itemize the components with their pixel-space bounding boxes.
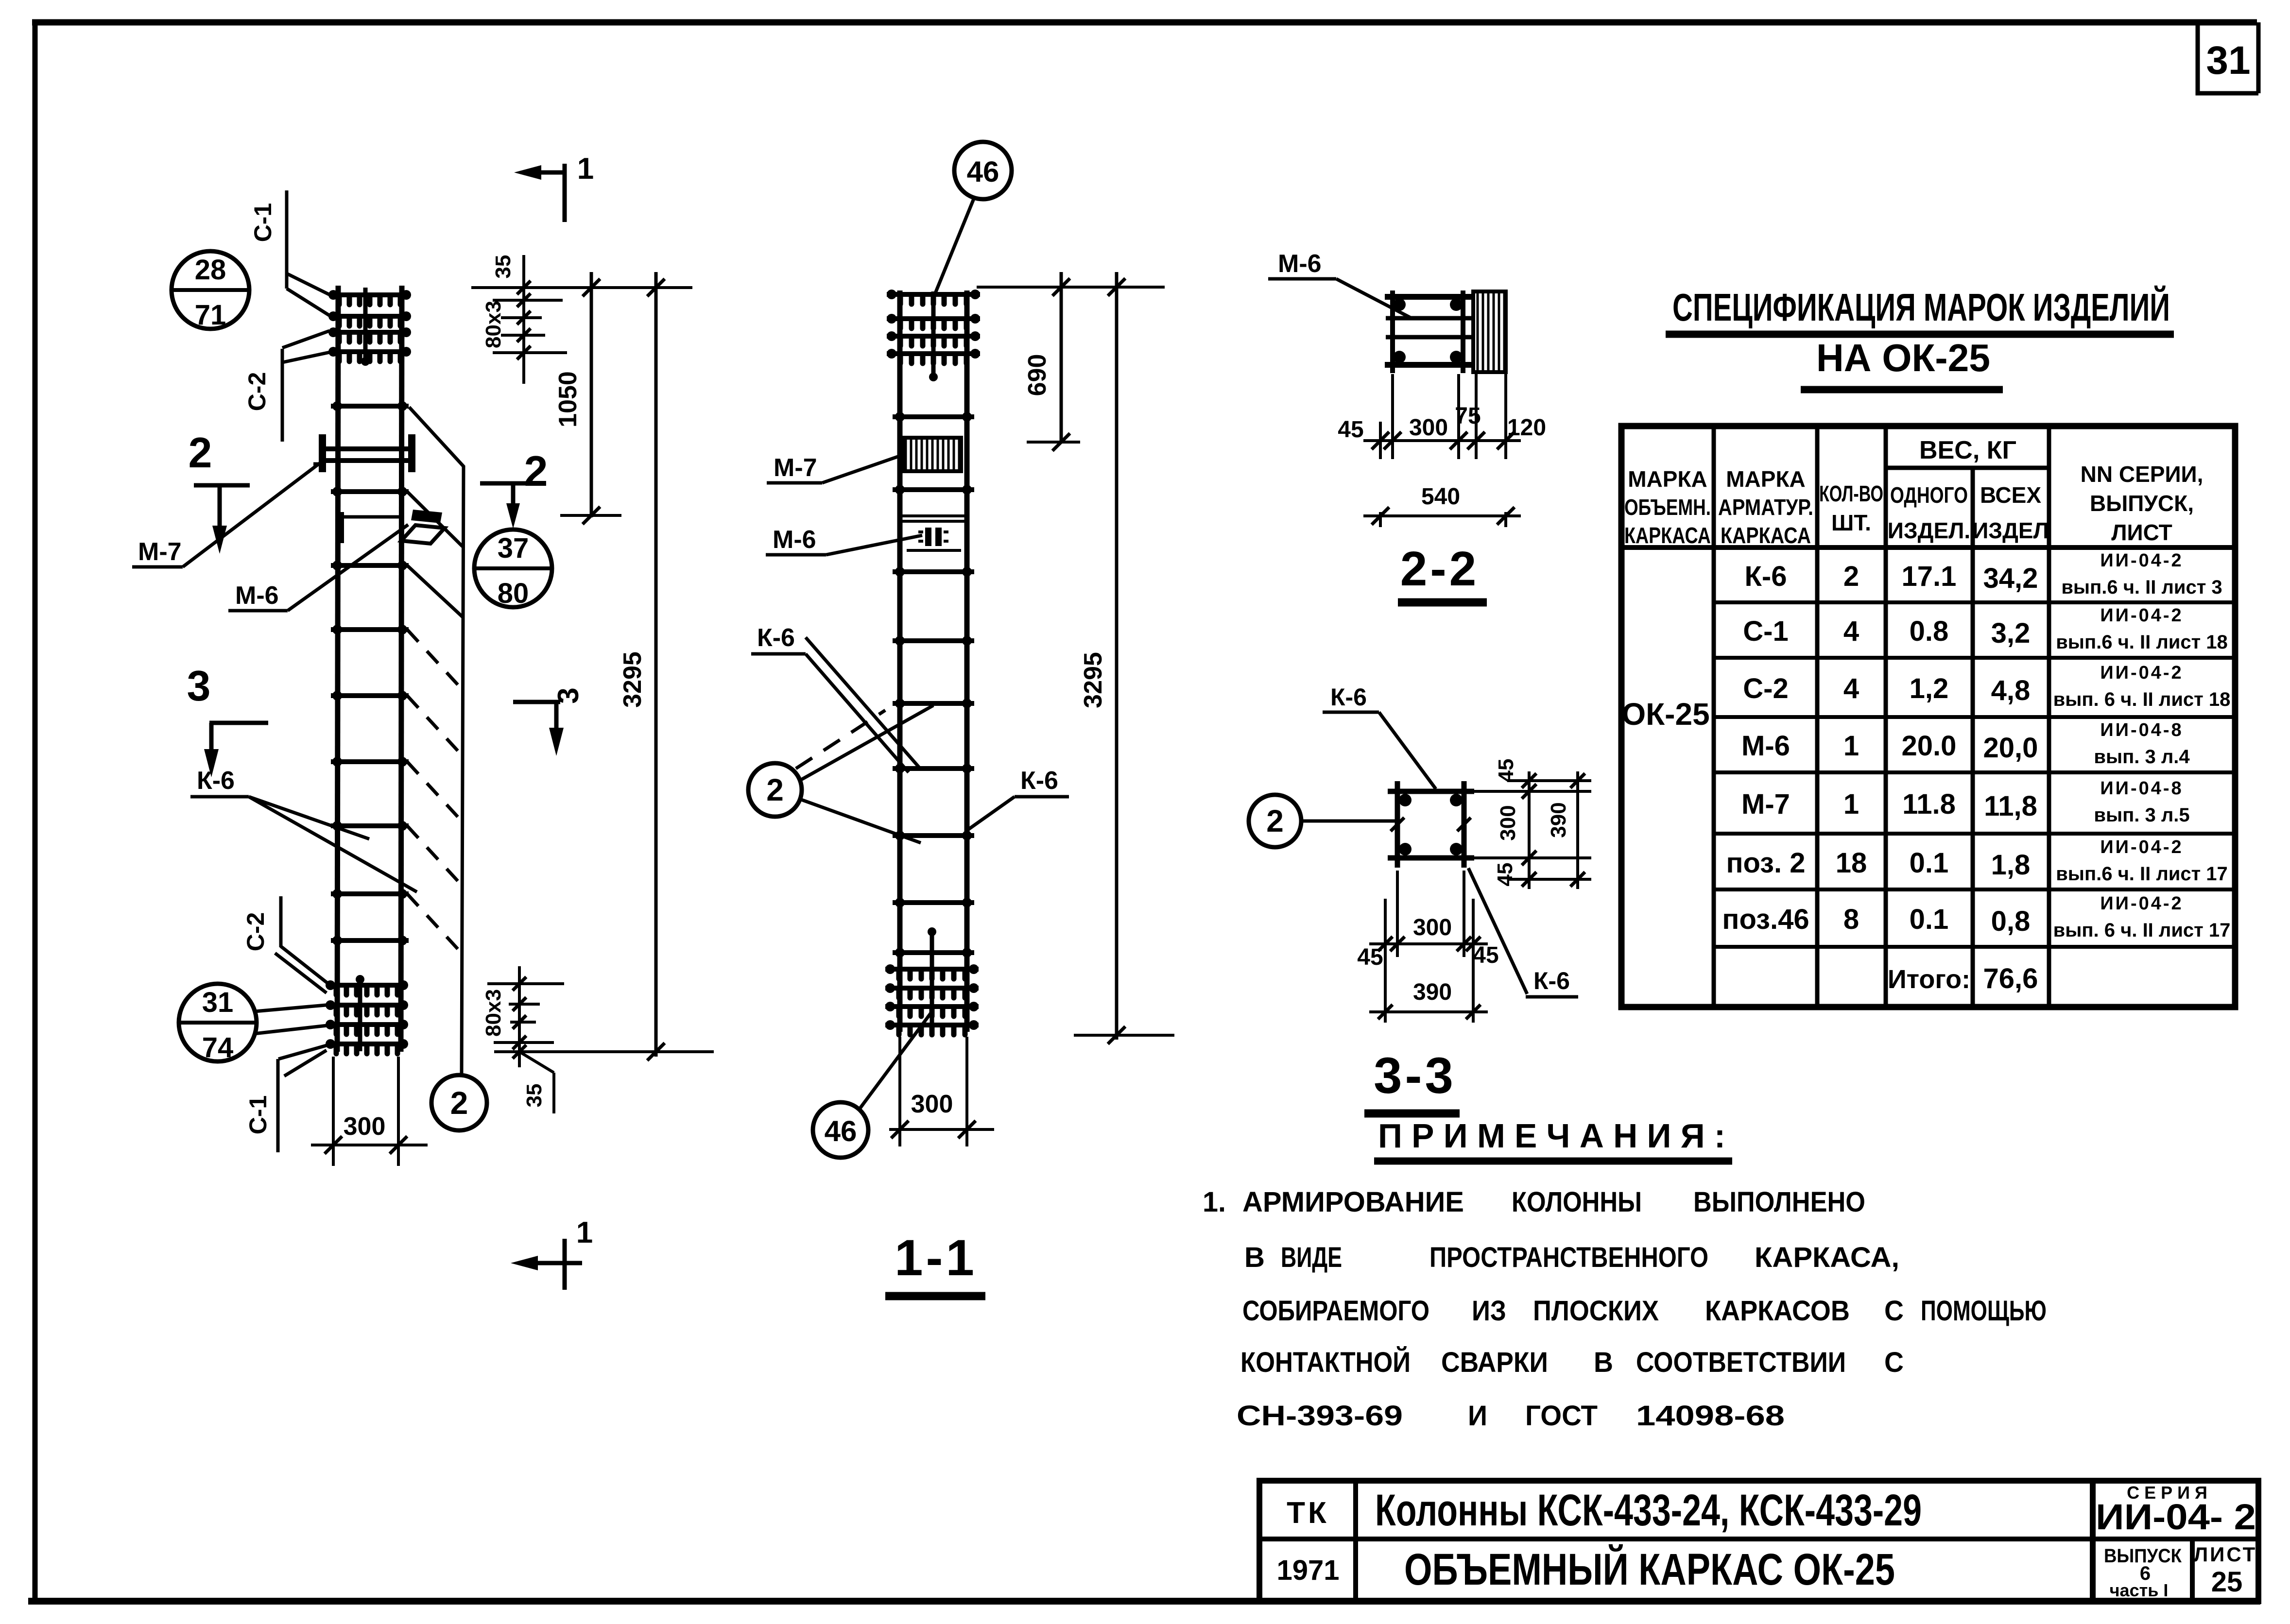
section 1-1 rungs <box>893 412 974 422</box>
svg-text:0.1: 0.1 <box>1910 904 1949 935</box>
svg-text:ВИДЕ: ВИДЕ <box>1281 1242 1342 1273</box>
svg-text:В: В <box>1244 1242 1265 1273</box>
leader from section 3-3 to label K-6 bottom <box>1468 868 1527 994</box>
leader polyline to callout circle 2 bottom <box>409 407 464 1075</box>
callout circle 31/74 <box>179 984 257 1061</box>
svg-text:СПЕЦИФИКАЦИЯ МАРОК ИЗДЕЛИЙ: СПЕЦИФИКАЦИЯ МАРОК ИЗДЕЛИЙ <box>1672 285 2170 329</box>
svg-text:46: 46 <box>825 1115 857 1147</box>
svg-text:0.8: 0.8 <box>1910 615 1949 647</box>
svg-text:25: 25 <box>2211 1566 2243 1598</box>
svg-text:МАРКА: МАРКА <box>1628 466 1707 492</box>
section 1-1 rail left <box>897 291 903 1032</box>
svg-text:NN СЕРИИ,: NN СЕРИИ, <box>2081 462 2204 487</box>
svg-text:С-2: С-2 <box>1743 673 1788 704</box>
svg-text:НА ОК-25: НА ОК-25 <box>1816 336 1990 379</box>
svg-text:КАРКАСА: КАРКАСА <box>1624 523 1711 548</box>
svg-text:2: 2 <box>450 1085 468 1121</box>
svg-text:Колонны КСК-433-24, КСК-433-: Колонны КСК-433-24, КСК-433-29 <box>1375 1486 1922 1535</box>
svg-text:М-7: М-7 <box>138 538 182 566</box>
svg-text:31: 31 <box>2206 38 2250 83</box>
svg-text:ТК: ТК <box>1287 1496 1329 1530</box>
embedded part M-6 in section 1-1 <box>900 514 967 517</box>
svg-text:1050: 1050 <box>554 371 582 427</box>
svg-text:ГОСТ: ГОСТ <box>1525 1400 1598 1432</box>
section 3-3 square of bars <box>1395 781 1400 868</box>
svg-text:СН-393-69: СН-393-69 <box>1237 1400 1403 1432</box>
svg-text:МАРКА: МАРКА <box>1726 466 1806 492</box>
embedded part M-6 flag in left column <box>338 515 401 519</box>
section 2-2 middle bars <box>1386 316 1502 321</box>
dimension 1050 left column <box>590 272 593 517</box>
svg-text:20,0: 20,0 <box>1983 732 2038 764</box>
svg-text:КОЛОННЫ: КОЛОННЫ <box>1512 1186 1642 1218</box>
leader 46 bottom <box>859 1013 931 1110</box>
section mark 2 right <box>480 481 530 486</box>
svg-text:С-1: С-1 <box>1743 615 1788 647</box>
svg-text:14098-68: 14098-68 <box>1636 1400 1785 1432</box>
svg-text:вып.6 ч. II лист 3: вып.6 ч. II лист 3 <box>2061 577 2222 598</box>
svg-text:ПОМОЩЬЮ: ПОМОЩЬЮ <box>1921 1295 2047 1327</box>
svg-text:3295: 3295 <box>1079 652 1107 708</box>
svg-text:300: 300 <box>911 1090 953 1118</box>
svg-text:ИЗ: ИЗ <box>1472 1295 1506 1327</box>
svg-text:4,8: 4,8 <box>1991 675 2031 706</box>
section 1-1 bottom mesh rows <box>885 964 979 979</box>
svg-text:31: 31 <box>202 987 234 1018</box>
leader M-7 section 1-1 <box>822 454 905 483</box>
svg-text:ВЫПОЛНЕНО: ВЫПОЛНЕНО <box>1693 1186 1865 1218</box>
svg-text:поз. 2: поз. 2 <box>1726 847 1805 879</box>
section 3-3 corner bars dots <box>1399 794 1412 806</box>
svg-text:часть I: часть I <box>2110 1580 2169 1600</box>
sheet border frame <box>33 21 38 1603</box>
svg-text:М-7: М-7 <box>774 454 817 482</box>
svg-text:С-1: С-1 <box>244 1095 272 1135</box>
section 3-3 right dimension chain 45 300 45 390 <box>1468 790 1591 793</box>
svg-text:390: 390 <box>1413 979 1452 1005</box>
callout circle 2 middle <box>748 763 802 817</box>
leader band C-2 to mesh <box>282 331 329 348</box>
svg-text:КАРКАСА: КАРКАСА <box>1721 523 1811 548</box>
svg-text:2: 2 <box>766 772 784 807</box>
svg-text:К-6: К-6 <box>1020 767 1058 795</box>
svg-text:вып. 3 л.4: вып. 3 л.4 <box>2094 746 2190 768</box>
svg-text:4: 4 <box>1843 673 1859 704</box>
svg-text:3: 3 <box>552 687 585 703</box>
leaders circle 31/74 to mesh <box>255 1005 331 1011</box>
svg-text:74: 74 <box>202 1032 234 1063</box>
left column rail right <box>401 286 402 1052</box>
svg-text:300: 300 <box>344 1112 386 1141</box>
svg-text:76,6: 76,6 <box>1983 963 2038 994</box>
svg-text:К-6: К-6 <box>1533 967 1570 994</box>
svg-text:М-6: М-6 <box>1278 250 1322 278</box>
leader band C-1 bottom <box>278 1045 327 1059</box>
svg-text:ИИ-04- 2: ИИ-04- 2 <box>2096 1497 2256 1537</box>
svg-text:75: 75 <box>1455 403 1481 429</box>
svg-text:КОНТАКТНОЙ: КОНТАКТНОЙ <box>1240 1347 1411 1378</box>
left column top mesh center bar <box>363 288 368 363</box>
callout circle 2 bottom left column <box>431 1075 487 1130</box>
svg-text:2: 2 <box>1843 561 1859 592</box>
svg-text:1-1: 1-1 <box>895 1230 977 1286</box>
embedded part M-7 hatched in section 1-1 <box>903 438 961 471</box>
svg-text:поз.46: поз.46 <box>1722 904 1809 935</box>
svg-text:45: 45 <box>1357 944 1383 970</box>
leader K-6 to section 3-3 <box>1379 712 1436 789</box>
callout circle 46 top <box>954 142 1012 199</box>
sheet number box 31 <box>2198 23 2258 93</box>
left column rail left <box>337 286 338 1052</box>
svg-text:390: 390 <box>1547 802 1570 838</box>
svg-text:45: 45 <box>1493 863 1517 887</box>
leader band K-6 middle <box>806 637 919 768</box>
svg-text:11,8: 11,8 <box>1984 790 2037 822</box>
svg-text:1.: 1. <box>1203 1186 1226 1218</box>
svg-text:20.0: 20.0 <box>1902 730 1957 762</box>
leader band C-1 to mesh <box>287 274 330 295</box>
left column top mesh rows <box>328 290 411 305</box>
svg-text:45: 45 <box>1473 942 1498 968</box>
svg-text:К-6: К-6 <box>1330 684 1367 711</box>
svg-text:КАРКАСА,: КАРКАСА, <box>1755 1242 1899 1273</box>
svg-text:М-6: М-6 <box>1741 730 1790 762</box>
svg-text:18: 18 <box>1836 847 1867 879</box>
dimension 540 of section 2-2 <box>1379 512 1382 527</box>
svg-text:80x3: 80x3 <box>482 989 505 1037</box>
section mark 3 right <box>513 700 560 704</box>
svg-text:С: С <box>1884 1347 1904 1378</box>
svg-text:К-6: К-6 <box>1745 561 1787 592</box>
svg-text:ЛИСТ: ЛИСТ <box>2111 520 2172 545</box>
svg-text:Итого:: Итого: <box>1888 965 1970 994</box>
svg-text:300: 300 <box>1413 915 1452 940</box>
svg-text:1,2: 1,2 <box>1910 673 1949 704</box>
extension line top section 1-1 <box>977 286 1165 289</box>
svg-text:ИЗДЕЛ.: ИЗДЕЛ. <box>1888 518 1970 543</box>
solid diagonal leaders from left column rungs <box>407 492 463 547</box>
svg-text:ИИ-04-2: ИИ-04-2 <box>2100 605 2183 626</box>
svg-text:2-2: 2-2 <box>1400 542 1480 596</box>
callout circle 37/80 <box>474 530 552 607</box>
svg-text:ЛИСТ: ЛИСТ <box>2194 1543 2257 1566</box>
svg-text:П Р И М Е Ч А Н И Я :: П Р И М Е Ч А Н И Я : <box>1378 1117 1725 1155</box>
svg-text:вып. 6 ч. II лист 17: вып. 6 ч. II лист 17 <box>2053 920 2231 941</box>
dimension 3295 left column <box>654 272 658 1057</box>
svg-text:45: 45 <box>1338 417 1363 443</box>
svg-text:ВСЕХ: ВСЕХ <box>1980 482 2041 508</box>
svg-text:С-2: С-2 <box>242 912 269 952</box>
svg-text:80x3: 80x3 <box>482 301 505 348</box>
svg-text:35: 35 <box>491 255 515 279</box>
svg-text:В: В <box>1594 1347 1613 1378</box>
leader band C-2 bottom <box>281 946 331 986</box>
svg-text:28: 28 <box>195 254 226 286</box>
title block frame <box>1259 1481 2258 1601</box>
dashed diagonal leaders from left column rungs <box>407 630 462 689</box>
svg-text:45: 45 <box>1494 759 1518 783</box>
svg-text:71: 71 <box>195 299 226 331</box>
leader M-6 <box>288 525 408 611</box>
svg-text:2: 2 <box>524 447 548 495</box>
embedded part M-7 plates and bars in left column <box>319 434 326 472</box>
svg-text:2: 2 <box>189 428 212 477</box>
section 1-1 bottom mesh center bar <box>930 929 934 1032</box>
leader M-6 to section 2-2 <box>1336 279 1412 318</box>
svg-text:ИИ-04-2: ИИ-04-2 <box>2100 550 2183 571</box>
svg-text:ПРОСТРАНСТВЕННОГО: ПРОСТРАНСТВЕННОГО <box>1429 1242 1708 1273</box>
svg-text:1: 1 <box>576 1216 593 1249</box>
svg-text:вып. 3 л.5: вып. 3 л.5 <box>2094 804 2189 826</box>
leader M-6 section 1-1 <box>826 535 922 555</box>
section 2-2 frame bars <box>1390 291 1395 373</box>
dimension 300 left column bottom <box>332 1057 335 1166</box>
left column rungs <box>331 401 409 411</box>
dimension 300 section 1-1 <box>898 1037 901 1146</box>
callout circle 28/71 <box>172 251 249 329</box>
section 3-3 bottom dimension chain 45 300 45 390 <box>1384 899 1387 1023</box>
section 1-1 top mesh rows <box>887 290 980 304</box>
svg-text:ВЫПУСК,: ВЫПУСК, <box>2090 491 2194 516</box>
svg-text:37: 37 <box>498 532 529 564</box>
embedded part M-6 hatched block <box>1473 291 1506 372</box>
svg-text:К-6: К-6 <box>757 624 795 652</box>
svg-text:КОЛ-ВО: КОЛ-ВО <box>1819 481 1883 506</box>
callout circle 46 bottom <box>813 1102 868 1158</box>
leader M-7 <box>183 462 321 567</box>
svg-text:1: 1 <box>1843 788 1859 820</box>
leaders circle 2 middle <box>800 705 933 780</box>
svg-text:С: С <box>1884 1295 1904 1327</box>
svg-text:ОБЪЕМН.: ОБЪЕМН. <box>1624 495 1711 520</box>
svg-text:СВАРКИ: СВАРКИ <box>1441 1347 1548 1378</box>
svg-text:КАРКАСОВ: КАРКАСОВ <box>1705 1295 1850 1327</box>
leader K-6 middle right <box>968 797 1015 830</box>
svg-text:К-6: К-6 <box>197 767 235 795</box>
svg-text:3-3: 3-3 <box>1374 1047 1456 1104</box>
svg-text:ОДНОГО: ОДНОГО <box>1890 482 1968 508</box>
svg-text:ИИ-04-2: ИИ-04-2 <box>2100 663 2183 683</box>
svg-text:АРМИРОВАНИЕ: АРМИРОВАНИЕ <box>1242 1186 1464 1218</box>
callout circle 2 of section 3-3 <box>1249 795 1301 847</box>
section 2-2 corner welds <box>1393 298 1406 311</box>
svg-text:ПЛОСКИХ: ПЛОСКИХ <box>1533 1295 1659 1327</box>
svg-text:300: 300 <box>1409 415 1448 441</box>
leaders K-6 to rungs <box>249 797 369 839</box>
svg-text:М-6: М-6 <box>773 526 816 554</box>
svg-text:вып.6 ч. II лист 18: вып.6 ч. II лист 18 <box>2056 632 2228 653</box>
svg-text:И: И <box>1468 1400 1487 1432</box>
svg-text:34,2: 34,2 <box>1983 563 2038 594</box>
spec table grid <box>1621 426 2235 1007</box>
dimension chain 45 300 75 120 of section 2-2 <box>1391 374 1394 459</box>
svg-text:2: 2 <box>1266 803 1284 838</box>
svg-text:3,2: 3,2 <box>1991 617 2031 649</box>
svg-text:ИИ-04-8: ИИ-04-8 <box>2100 778 2183 799</box>
svg-text:80: 80 <box>498 578 529 609</box>
left column bottom mesh center bar <box>358 977 362 1051</box>
dimension 3295 section 1-1 <box>1115 272 1119 1040</box>
svg-text:120: 120 <box>1507 415 1546 441</box>
svg-text:ИИ-04-2: ИИ-04-2 <box>2100 837 2183 857</box>
svg-text:ИИ-04-8: ИИ-04-8 <box>2100 720 2183 740</box>
svg-text:8: 8 <box>1843 904 1859 935</box>
svg-text:вып.6 ч. II лист 17: вып.6 ч. II лист 17 <box>2056 863 2228 885</box>
svg-text:СООТВЕТСТВИИ: СООТВЕТСТВИИ <box>1636 1347 1846 1378</box>
svg-text:1: 1 <box>577 152 594 186</box>
svg-text:М-7: М-7 <box>1741 788 1790 820</box>
svg-text:1971: 1971 <box>1276 1555 1339 1586</box>
section 1-1 rail right <box>964 291 970 1032</box>
svg-text:17.1: 17.1 <box>1902 561 1957 592</box>
svg-text:11.8: 11.8 <box>1902 788 1956 820</box>
svg-text:690: 690 <box>1023 354 1051 396</box>
section 1-1 top mesh center bar <box>931 291 936 380</box>
dimension 690 section 1-1 <box>1060 272 1063 443</box>
svg-text:540: 540 <box>1421 484 1460 510</box>
svg-text:ШТ.: ШТ. <box>1831 510 1871 535</box>
svg-text:ВЕС, КГ: ВЕС, КГ <box>1919 436 2016 464</box>
svg-text:46: 46 <box>967 155 999 188</box>
left column bottom dim ladder 80x3 35 <box>487 982 564 985</box>
leader 46 top <box>934 198 974 295</box>
svg-text:С-2: С-2 <box>243 372 271 411</box>
svg-text:0,8: 0,8 <box>1991 906 2031 937</box>
svg-text:3295: 3295 <box>619 651 647 708</box>
svg-text:ИИ-04-2: ИИ-04-2 <box>2100 893 2183 914</box>
section mark 1 top <box>563 164 567 222</box>
extension line top left column <box>471 286 692 289</box>
svg-text:1,8: 1,8 <box>1991 849 2031 881</box>
svg-text:ИЗДЕЛ: ИЗДЕЛ <box>1972 518 2049 543</box>
left column bottom mesh rows <box>326 980 408 995</box>
svg-text:4: 4 <box>1843 615 1859 647</box>
svg-text:1: 1 <box>1843 730 1859 762</box>
svg-text:СОБИРАЕМОГО: СОБИРАЕМОГО <box>1242 1295 1429 1327</box>
svg-text:С-1: С-1 <box>249 203 276 242</box>
left column top dim ladder 35 80x3 <box>493 299 563 302</box>
svg-text:вып. 6 ч. II лист 18: вып. 6 ч. II лист 18 <box>2053 689 2231 710</box>
svg-text:300: 300 <box>1496 805 1520 840</box>
svg-text:М-6: М-6 <box>235 581 279 610</box>
section mark 1 bottom <box>563 1239 567 1290</box>
svg-text:35: 35 <box>522 1084 546 1108</box>
svg-text:АРМАТУР.: АРМАТУР. <box>1718 495 1813 520</box>
svg-text:ОК-25: ОК-25 <box>1621 697 1709 732</box>
svg-text:ОБЪЕМНЫЙ КАРКАС ОК-25: ОБЪЕМНЫЙ КАРКАС ОК-25 <box>1404 1544 1895 1594</box>
svg-text:3: 3 <box>187 662 211 710</box>
svg-text:0.1: 0.1 <box>1910 847 1949 879</box>
